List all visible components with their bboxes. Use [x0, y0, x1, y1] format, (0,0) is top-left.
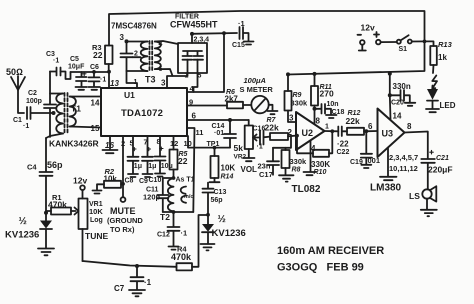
pin 11 wire to T2	[187, 128, 195, 212]
svg-text:3: 3	[161, 79, 166, 88]
pin 16 ground	[103, 136, 118, 153]
resistor R1 470k	[46, 208, 79, 215]
antenna 50ohm	[11, 76, 25, 113]
svg-text:7MSC4876N: 7MSC4876N	[111, 22, 157, 31]
svg-text:KANK3426R: KANK3426R	[49, 139, 99, 149]
svg-text:TL082: TL082	[292, 184, 321, 195]
svg-text:56p: 56p	[211, 197, 223, 204]
oscillator coil T2	[172, 176, 176, 180]
svg-text:C22: C22	[337, 149, 350, 156]
node TP1	[213, 146, 217, 150]
capacitor C22 .22	[338, 127, 347, 137]
svg-text:220μF: 220μF	[428, 165, 453, 175]
resistor R2 10k	[97, 181, 123, 190]
svg-text:·1: ·1	[53, 58, 59, 65]
capacitor C1	[27, 107, 54, 119]
wire T3 bottom to U1 pin1	[127, 71, 138, 88]
svg-text:330K: 330K	[311, 160, 330, 169]
T3 core	[150, 41, 153, 71]
T3 tuning capacitor	[121, 42, 133, 72]
capacitor C7	[131, 266, 144, 290]
svg-text:CFW455HT: CFW455HT	[170, 20, 218, 30]
svg-text:C8: C8	[125, 178, 134, 185]
svg-text:15: 15	[91, 124, 100, 133]
varicap D1 KV1236	[40, 213, 52, 248]
node rail/S1/R13	[423, 40, 427, 44]
svg-text:100μA: 100μA	[244, 76, 266, 85]
resistor R8 330k	[282, 148, 290, 175]
svg-text:1: 1	[325, 124, 329, 131]
resistor R14 10K	[210, 148, 220, 183]
svg-text:160m AM RECEIVER: 160m AM RECEIVER	[277, 245, 384, 257]
svg-text:1μ: 1μ	[148, 163, 156, 170]
svg-text:·1: ·1	[181, 229, 188, 238]
feedback resistor R10 330K	[297, 131, 332, 157]
wire U1 pin4 line	[187, 33, 224, 92]
svg-text:50Ω: 50Ω	[6, 67, 23, 77]
wire T1 to U1 pin15	[70, 127, 101, 128]
resistor R4 470k	[177, 215, 208, 270]
resistor R5 22	[170, 136, 178, 178]
svg-text:1μ: 1μ	[134, 163, 142, 170]
wire U2 output	[325, 130, 339, 132]
node R2/pin2	[121, 182, 125, 186]
svg-text:TUNE: TUNE	[85, 231, 108, 241]
svg-text:330n: 330n	[393, 82, 411, 91]
capacitor C2	[44, 72, 56, 138]
wire U3 output	[405, 132, 428, 159]
svg-text:T1: T1	[71, 104, 81, 114]
svg-text:C2: C2	[28, 90, 37, 97]
svg-text:R8: R8	[292, 167, 301, 174]
capacitor C5 10uF	[76, 72, 87, 87]
svg-text:VR2: VR2	[234, 154, 247, 161]
T2 adjustable core	[181, 187, 187, 203]
svg-text:C10: C10	[149, 177, 162, 184]
svg-text:22k: 22k	[265, 123, 279, 133]
T3 secondary winding	[155, 42, 161, 70]
capacitor C14	[228, 118, 232, 122]
svg-text:C12: C12	[157, 232, 170, 239]
svg-text:C5: C5	[70, 56, 79, 63]
wire pin2 to R8/C17	[273, 136, 291, 148]
svg-text:8: 8	[407, 122, 412, 131]
ground LS	[421, 199, 437, 217]
capacitor C15	[240, 27, 249, 41]
svg-text:10n: 10n	[327, 101, 339, 108]
svg-text:U3: U3	[382, 129, 394, 139]
wire T3 secondary bottom	[155, 69, 173, 76]
svg-text:270: 270	[320, 89, 334, 99]
svg-text:2k7: 2k7	[225, 95, 239, 104]
svg-text:C18: C18	[332, 109, 345, 116]
svg-text:12v: 12v	[361, 23, 375, 33]
node C7	[135, 264, 139, 268]
ground varicap D2	[201, 244, 215, 250]
svg-text:U2: U2	[302, 128, 314, 138]
wire filter grounds to C15	[192, 32, 237, 35]
svg-text:120p: 120p	[143, 193, 161, 202]
svg-text:C19: C19	[350, 159, 363, 166]
resistor R12 22k	[347, 128, 378, 135]
svg-text:S1: S1	[399, 46, 408, 53]
resistor R6 2k7	[227, 102, 251, 109]
svg-text:C9: C9	[139, 178, 148, 185]
svg-text:1k: 1k	[438, 53, 447, 62]
svg-text:10,11,12: 10,11,12	[389, 164, 418, 173]
svg-text:470k: 470k	[171, 252, 192, 262]
wire T1 to U1 pin14	[70, 96, 101, 98]
svg-text:R13: R13	[438, 40, 453, 49]
svg-text:R10: R10	[314, 169, 327, 176]
svg-text:C15: C15	[232, 42, 245, 49]
S meter M1 100uA	[251, 96, 268, 113]
svg-text:8: 8	[316, 117, 321, 126]
svg-text:S METER: S METER	[240, 85, 274, 94]
svg-text:C21: C21	[436, 155, 449, 162]
svg-text:U1: U1	[124, 90, 135, 100]
op-amp U3 LM380	[378, 109, 405, 158]
svg-text:·1: ·1	[257, 144, 263, 151]
capacitor C8 1u	[128, 136, 139, 174]
svg-text:22: 22	[178, 156, 188, 166]
svg-text:·1: ·1	[238, 19, 245, 28]
capacitor C16 with wiper arrow	[253, 131, 270, 145]
svg-text:2,3,4,5,7: 2,3,4,5,7	[389, 153, 418, 162]
wire antenna to C1	[18, 90, 24, 113]
switch S1	[381, 41, 397, 43]
svg-text:22k: 22k	[346, 116, 360, 126]
svg-text:LM380: LM380	[370, 183, 402, 194]
varicap D2 KV1236	[202, 224, 214, 244]
svg-text:10K: 10K	[221, 164, 236, 173]
node R3/pin13	[107, 70, 111, 74]
svg-text:G3OGQ FEB 99: G3OGQ FEB 99	[277, 262, 364, 274]
svg-text:6: 6	[159, 66, 163, 73]
ground LED	[426, 109, 439, 112]
ground C18	[326, 115, 337, 118]
pin 9 wire to R6	[187, 105, 227, 107]
LED D3 with flash	[432, 76, 437, 89]
node R9 top	[286, 72, 290, 76]
12V terminal for VR1	[80, 185, 85, 190]
svg-text:4: 4	[159, 41, 163, 48]
svg-text:2,3,4: 2,3,4	[194, 37, 210, 44]
node R1/C4/varicap	[44, 211, 48, 215]
svg-text:TO Rx): TO Rx)	[110, 225, 135, 234]
svg-text:C4: C4	[27, 163, 37, 172]
capacitor C12	[168, 212, 180, 246]
svg-text:Log: Log	[90, 217, 103, 224]
node U2 pin2	[295, 134, 299, 138]
svg-text:C1: C1	[13, 117, 22, 124]
svg-text:470k: 470k	[48, 200, 67, 210]
svg-text:56p: 56p	[47, 160, 63, 170]
svg-text:C14: C14	[212, 123, 225, 130]
svg-text:C17: C17	[259, 170, 273, 179]
capacitor C4	[40, 138, 53, 213]
svg-text:14: 14	[393, 112, 402, 121]
resistor R9 330k	[285, 74, 297, 122]
resistor R7 22k	[270, 133, 296, 140]
svg-text:VOL: VOL	[241, 165, 258, 174]
capacitor C3	[50, 68, 71, 80]
transformer T1	[46, 93, 76, 138]
svg-text:·1: ·1	[100, 77, 106, 84]
pin 6 wire to volume pot	[187, 119, 249, 121]
capacitor C10 10u	[155, 136, 166, 173]
capacitor C9 1u	[142, 136, 153, 174]
U2 pin4 ground	[304, 141, 316, 176]
svg-text:22: 22	[93, 50, 103, 60]
svg-text:C20: C20	[391, 100, 404, 107]
pin 2 wire to mute terminal	[122, 136, 124, 197]
ground C15	[244, 42, 254, 45]
svg-text:330k: 330k	[291, 99, 309, 108]
svg-text:T3: T3	[145, 75, 156, 85]
node C6 top	[92, 70, 96, 74]
wire filter pin1 to U1 pin3	[167, 73, 188, 88]
node C20 top	[388, 72, 392, 76]
svg-text:1: 1	[134, 79, 138, 86]
pin 10 wire to TP1	[188, 136, 230, 148]
svg-text:11: 11	[196, 128, 204, 137]
wire top supply rail	[109, 11, 425, 75]
svg-text:As T1: As T1	[176, 177, 195, 184]
svg-text:9: 9	[189, 98, 193, 107]
mute terminal circle	[121, 197, 126, 202]
ground R2	[93, 191, 102, 194]
resistor R13 1k	[425, 41, 437, 73]
svg-text:14: 14	[91, 99, 100, 108]
wire filter pin5 to U1 pin4 line	[194, 73, 198, 92]
svg-text:13: 13	[110, 79, 119, 88]
U3 ground pins	[380, 148, 397, 181]
svg-text:12v: 12v	[73, 176, 87, 186]
node T1 tap	[52, 111, 56, 115]
capacitor C18 10n	[315, 104, 332, 115]
svg-text:100p: 100p	[26, 98, 42, 105]
svg-text:10k: 10k	[104, 175, 118, 184]
svg-text:3: 3	[120, 33, 125, 42]
svg-text:·1: ·1	[144, 278, 152, 287]
loudspeaker LS	[422, 189, 431, 198]
svg-text:·22: ·22	[337, 140, 349, 149]
capacitor C19 .001	[361, 131, 372, 164]
svg-text:10μF: 10μF	[68, 64, 85, 71]
capacitor C20 330n	[390, 90, 410, 102]
wire rail to U3 pin14	[389, 74, 392, 119]
op-amp U2 TL082	[296, 112, 325, 150]
potentiometer VR1 10k	[79, 190, 88, 261]
svg-text:C6: C6	[90, 64, 99, 71]
svg-text:·01: ·01	[214, 130, 224, 137]
ground C6	[89, 87, 101, 90]
ground R8/C17	[279, 175, 294, 181]
svg-text:10K: 10K	[89, 207, 103, 216]
wire U2 pin8	[314, 109, 316, 124]
svg-text:m/c: m/c	[184, 194, 193, 200]
IC U1 TDA1072	[101, 88, 187, 136]
svg-text:R14: R14	[221, 174, 234, 181]
svg-text:2: 2	[134, 51, 138, 58]
svg-text:LED: LED	[440, 101, 456, 110]
svg-text:5k: 5k	[234, 143, 244, 153]
node T3 top	[125, 39, 129, 43]
svg-text:·1: ·1	[23, 123, 29, 130]
svg-text:C7: C7	[114, 284, 125, 293]
capacitor C6	[89, 72, 100, 87]
ground meter	[268, 111, 278, 114]
node C19/U3 input	[364, 129, 368, 133]
svg-text:(GROUND: (GROUND	[107, 216, 143, 225]
ground C5	[76, 87, 88, 90]
node R11 top	[313, 72, 317, 76]
svg-text:KV1236: KV1236	[5, 230, 39, 241]
svg-text:TP1: TP1	[207, 141, 220, 148]
T3 primary winding	[141, 42, 148, 72]
ground C19	[361, 165, 371, 168]
wire T3 secondary top to filter	[155, 41, 178, 44]
svg-text:KV1236: KV1236	[212, 228, 246, 239]
svg-text:6: 6	[368, 122, 373, 131]
wire tune line bottom	[83, 261, 177, 267]
svg-text:C16: C16	[253, 126, 266, 133]
svg-text:LS: LS	[409, 191, 420, 201]
svg-text:330k: 330k	[290, 157, 308, 166]
wire C3/C5/C6/R3 junction line	[71, 72, 110, 88]
resistor R3 22	[105, 46, 113, 72]
capacitor C21 220uF	[421, 151, 435, 190]
svg-text:MUTE: MUTE	[110, 206, 136, 216]
svg-text:TDA1072: TDA1072	[121, 108, 163, 119]
ground C20	[405, 103, 416, 106]
svg-text:½: ½	[19, 216, 27, 227]
svg-text:C13: C13	[214, 189, 227, 196]
node C18/pin8	[313, 107, 317, 111]
capacitor C13 56p	[203, 183, 214, 224]
svg-text:6: 6	[192, 112, 197, 121]
resistor R11 270	[311, 74, 318, 109]
ground C7	[129, 290, 145, 296]
ground varicap D1	[38, 249, 54, 256]
volume pot VR2 5k	[245, 120, 253, 158]
capacitor C17 23n	[267, 148, 279, 175]
svg-text:½: ½	[218, 214, 226, 225]
svg-text:T2: T2	[160, 212, 170, 222]
svg-text:3: 3	[289, 114, 294, 123]
node filter ground pins 2,3,4	[190, 32, 194, 36]
node varicap2	[206, 213, 210, 217]
